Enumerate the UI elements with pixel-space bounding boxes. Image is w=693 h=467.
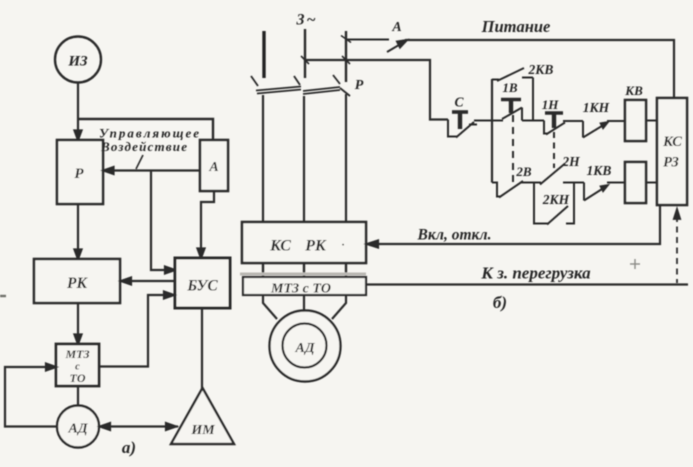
wire MTZ to AD bbox=[77, 386, 79, 406]
connectors KS RK to MTZ block bbox=[263, 263, 346, 277]
wire BUS to IM bbox=[201, 308, 203, 390]
block KS RK bbox=[242, 222, 366, 263]
slash tick on wire bbox=[136, 155, 143, 169]
svg-text:МТЗ с ТО: МТЗ с ТО bbox=[270, 282, 331, 297]
wire to KV coil bbox=[607, 120, 625, 122]
svg-text:а): а) bbox=[122, 438, 136, 457]
svg-text:КС: КС bbox=[662, 134, 682, 150]
wire Pitanie top bbox=[405, 40, 674, 98]
wire rung to 1KN bbox=[563, 120, 583, 122]
motor AD circle (left) bbox=[57, 406, 99, 448]
svg-text:1В: 1В bbox=[502, 80, 518, 95]
phase line L2 top stub bbox=[304, 29, 306, 78]
motor feed wires bbox=[263, 295, 346, 319]
svg-text:ТО: ТО bbox=[70, 371, 86, 385]
contactor P contacts bbox=[251, 75, 350, 96]
svg-text:А: А bbox=[208, 160, 218, 175]
phase line L2 lower bbox=[303, 96, 305, 222]
block RK bbox=[34, 259, 120, 303]
block MTZ s TO bbox=[56, 344, 99, 386]
interlock contact 1KN bbox=[583, 121, 609, 138]
svg-text:1КВ: 1КВ bbox=[587, 163, 612, 178]
stray scan mark plus bbox=[630, 259, 640, 269]
bracket vertical for V buttons bbox=[491, 79, 493, 183]
svg-text:РК: РК bbox=[304, 238, 327, 255]
svg-text:С: С bbox=[454, 95, 464, 110]
break contact 2N bbox=[534, 164, 584, 185]
wire KV to KS RZ bbox=[646, 120, 658, 122]
svg-text:Р: Р bbox=[355, 78, 364, 93]
stop button C bbox=[448, 112, 492, 138]
phase line L1 top stub bbox=[262, 31, 265, 78]
svg-text:ИЗ: ИЗ bbox=[67, 54, 88, 70]
svg-text:Воздействие: Воздействие bbox=[100, 139, 187, 154]
interlock contact 1KV bbox=[584, 183, 609, 201]
wire control feed from L2 bbox=[305, 60, 448, 120]
wire Vkl/otkl with arrow bbox=[367, 205, 660, 248]
wire A bottom to BUS top bbox=[198, 191, 215, 258]
svg-text:2Н: 2Н bbox=[561, 154, 580, 169]
wire arrow into R top bbox=[75, 119, 82, 140]
motor AD (right) bbox=[270, 311, 341, 382]
phase line L3 top stub bbox=[345, 31, 347, 82]
stray scan tick left edge bbox=[0, 295, 6, 297]
actuator IM triangle bbox=[171, 388, 234, 444]
junction tick L2 bbox=[301, 56, 309, 64]
svg-text:2КВ: 2КВ bbox=[528, 62, 554, 77]
wire top horizontal A to node bbox=[78, 119, 213, 140]
wire branch to BUS left upper bbox=[151, 171, 175, 274]
svg-text:Питание: Питание bbox=[481, 17, 551, 36]
start button 1N bbox=[544, 113, 565, 135]
svg-text:РК: РК bbox=[67, 275, 88, 292]
wire rung between buttons bbox=[522, 120, 544, 122]
coil KN bbox=[625, 162, 646, 203]
wire main rung bbox=[490, 120, 503, 122]
svg-text:А: А bbox=[391, 20, 401, 35]
wire R to RK with arrow bbox=[75, 204, 82, 259]
block MTZ s TO (right) bbox=[240, 274, 366, 297]
mechanical link 1V-2V dashed bbox=[512, 115, 514, 182]
sealing contact 2KV bbox=[492, 68, 533, 121]
svg-text:АД: АД bbox=[67, 422, 88, 437]
wire to KN coil bbox=[607, 182, 625, 184]
coil KV bbox=[625, 100, 646, 141]
svg-text:·: · bbox=[342, 239, 345, 251]
wire RK to MTZ with arrow bbox=[75, 303, 82, 344]
svg-text:б): б) bbox=[493, 293, 507, 312]
svg-text:БУС: БУС bbox=[186, 278, 218, 295]
svg-text:МТЗ: МТЗ bbox=[64, 347, 89, 361]
svg-text:К з. перегрузка: К з. перегрузка bbox=[480, 264, 591, 283]
svg-text:1Н: 1Н bbox=[542, 97, 560, 112]
switch A blade bbox=[346, 40, 407, 53]
junction tick L3 bbox=[341, 36, 351, 43]
label Upravlyayushchee vozdeystvie bbox=[99, 126, 199, 155]
dashed overload signal wire bbox=[674, 209, 680, 283]
svg-text:2В: 2В bbox=[515, 164, 532, 179]
wire BUS to RK with arrow bbox=[121, 278, 175, 285]
svg-text:РЗ: РЗ bbox=[663, 155, 679, 171]
block R bbox=[57, 140, 103, 204]
wire AD to IM with two arrows bbox=[99, 423, 178, 430]
svg-text:АД: АД bbox=[294, 341, 315, 356]
wire KN to KS RZ bbox=[646, 182, 658, 184]
wire K z. peregruzka bbox=[366, 283, 688, 285]
mechanical link 1N-2N dashed bbox=[553, 132, 555, 168]
wire A to R with arrow bbox=[104, 167, 201, 174]
svg-text:КС: КС bbox=[269, 238, 291, 255]
wire MTZ to BUS lower with arrow bbox=[99, 292, 174, 367]
svg-text:1КН: 1КН bbox=[583, 100, 610, 115]
block BUS bbox=[175, 258, 230, 308]
svg-text:ИМ: ИМ bbox=[190, 423, 215, 438]
start button 1V bbox=[501, 100, 522, 121]
feedback wire AD to MTZ with arrow bbox=[5, 364, 57, 427]
svg-text:Р: Р bbox=[74, 166, 84, 182]
svg-text:2КН: 2КН bbox=[542, 192, 570, 207]
svg-text:Вкл, откл.: Вкл, откл. bbox=[416, 227, 491, 244]
junction tick L3 crossing bbox=[342, 56, 350, 64]
sensor IZ circle bbox=[55, 37, 101, 83]
bypass contact 2KN bbox=[534, 183, 574, 225]
svg-text:3~: 3~ bbox=[295, 12, 317, 29]
phase line L1 lower bbox=[262, 95, 264, 222]
svg-text:КВ: КВ bbox=[624, 83, 643, 98]
wire IZ to node bbox=[77, 83, 79, 120]
block A bbox=[200, 140, 228, 191]
block KS RZ bbox=[657, 98, 687, 205]
break contact 2V bbox=[492, 181, 534, 198]
phase line L3 lower bbox=[345, 94, 347, 222]
